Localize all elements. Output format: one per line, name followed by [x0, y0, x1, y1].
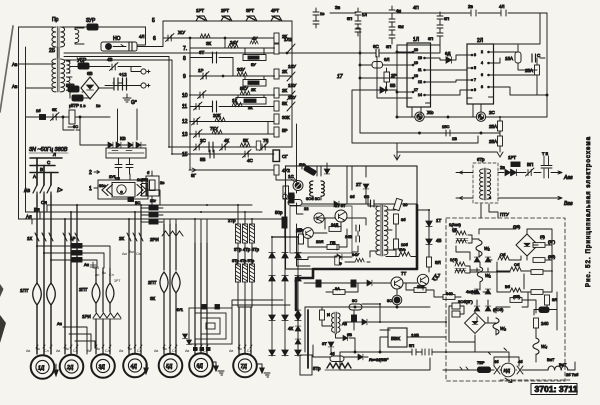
svg-text:3Д: 3Д: [99, 365, 106, 371]
labels 3D bundle: [93, 250, 142, 283]
svg-text:20Я: 20Я: [316, 239, 323, 244]
wire motor row: [443, 362, 575, 370]
svg-text:8Я: 8Я: [552, 297, 557, 302]
svg-text:2РТ: 2РТ: [221, 8, 229, 13]
dashed rule above plate: [500, 379, 572, 381]
resistor below 1S: [289, 193, 294, 203]
wire heater taps: [37, 241, 72, 260]
capacitor C right: [532, 53, 541, 62]
svg-text:19: 19: [414, 61, 418, 65]
diode pair up second tier a: [466, 289, 491, 294]
svg-text:б: б: [147, 170, 150, 175]
svg-text:240: 240: [541, 321, 549, 326]
resistor USR dark: [77, 58, 89, 69]
inductor Vb lower a: [510, 262, 521, 271]
svg-text:9Ус: 9Ус: [399, 247, 406, 252]
bypass loop over ID: [488, 348, 519, 366]
svg-text:4У: 4У: [252, 36, 258, 41]
svg-text:ВП: ВП: [527, 162, 533, 167]
resistor 25A chain lower a: [489, 121, 503, 131]
motor 5D feeds: [164, 224, 176, 270]
wire bvk nets: [380, 337, 446, 352]
svg-text:Ав: Ав: [24, 188, 30, 194]
svg-text:3УР: 3УР: [86, 18, 96, 24]
motor 6D feeds: [195, 243, 207, 354]
svg-text:5Р: 5Р: [282, 128, 288, 133]
svg-text:+12: +12: [119, 72, 127, 77]
svg-text:25А: 25А: [525, 68, 533, 73]
bridge 4K lower-left column: [288, 308, 301, 348]
ladder box row10: [236, 95, 266, 110]
svg-text:5П: 5П: [347, 16, 352, 21]
wire 1D fuse tails: [37, 305, 51, 354]
svg-text:2Л: 2Л: [477, 38, 483, 44]
svg-text:6: 6: [153, 36, 156, 42]
svg-text:6Т: 6Т: [199, 50, 205, 55]
svg-text:Ав: Ав: [12, 62, 18, 67]
svg-text:30У: 30У: [237, 67, 245, 72]
svg-text:Ан: Ан: [84, 262, 89, 267]
svg-text:6Л: 6Л: [384, 57, 390, 62]
svg-text:ЖУ: ЖУ: [178, 30, 185, 35]
svg-text:1С: 1С: [288, 174, 295, 179]
svg-text:4: 4: [481, 61, 483, 65]
wire amp internals: [297, 203, 348, 266]
block KV box: [106, 148, 146, 158]
breaker Av contacts: [24, 185, 63, 195]
svg-text:5Тр: 5Тр: [313, 366, 321, 371]
svg-text:2С: 2С: [200, 138, 207, 143]
svg-text:Ам: Ам: [122, 252, 127, 256]
cap 1S dark a: [316, 280, 321, 287]
svg-text:Ал: Ал: [26, 214, 32, 219]
diode 1T chain: [426, 218, 442, 227]
svg-text:3К: 3К: [206, 41, 212, 46]
svg-text:7Т: 7Т: [401, 271, 407, 276]
wire 7D link: [239, 306, 252, 308]
capacitor bank plus12: [114, 72, 127, 90]
staircase 2D-3D: [63, 327, 95, 354]
svg-text:6Тр: 6Тр: [477, 157, 485, 162]
wire 2L right nets: [494, 45, 548, 95]
svg-text:Об: Об: [500, 252, 506, 257]
resistor 1R heaters: [70, 236, 82, 262]
svg-text:1б: 1б: [36, 108, 41, 113]
svg-text:НО: НО: [113, 36, 121, 42]
resistor 20Ya v: [335, 256, 340, 265]
transformer Tr2: [49, 48, 65, 92]
svg-text:В: В: [40, 167, 43, 172]
resistor on box edge: [283, 186, 289, 199]
wire chain top: [417, 209, 429, 211]
wire caps link: [347, 218, 366, 252]
transformer Tr2 secondary a: [67, 61, 71, 73]
misc tick marks motor bundles: [36, 345, 252, 348]
svg-text:4В: 4В: [107, 57, 113, 62]
wire 6Tr right nets: [498, 171, 562, 174]
svg-text:ВС: ВС: [135, 200, 141, 205]
svg-text:4К: 4К: [224, 138, 230, 143]
transistor 4T: [417, 274, 438, 285]
junction dots 1L feeds: [359, 64, 361, 66]
svg-text:W₄: W₄: [541, 344, 547, 349]
svg-text:(4): (4): [540, 234, 546, 239]
svg-text:Сл: Сл: [172, 349, 177, 353]
resistor 3b: [394, 214, 407, 224]
resistor 28Ya: [296, 228, 304, 244]
resistor tier3: [531, 290, 543, 295]
svg-text:10: 10: [182, 93, 188, 99]
svg-text:А: А: [33, 174, 36, 179]
svg-text:5Д: 5Д: [166, 364, 173, 370]
svg-text:3Об 8С: 3Об 8С: [306, 196, 320, 201]
motor 4D feeds: [129, 205, 141, 354]
svg-text:W₂: W₂: [500, 326, 506, 331]
resistor 5b rounded: [288, 194, 309, 211]
diode stack right col1 row2: [269, 276, 301, 282]
wavy W1b: [477, 267, 491, 282]
wire thick top thin: [416, 166, 418, 205]
svg-text:1В: 1В: [452, 136, 457, 141]
svg-text:4РТ: 4РТ: [271, 8, 279, 13]
junction dots sprinkle: [43, 47, 553, 353]
contact row 1K: [27, 233, 53, 241]
svg-text:2в: 2в: [500, 165, 506, 170]
lamp 2S: [476, 110, 495, 121]
small boxes 1G: [452, 303, 460, 317]
wire 285 spine: [284, 199, 286, 237]
svg-text:28Я: 28Я: [296, 228, 303, 233]
diodes near loops: [182, 334, 191, 344]
resistor 240: [534, 318, 550, 328]
svg-text:17: 17: [337, 74, 343, 80]
ladder box row9: [243, 76, 266, 92]
block 2v small left: [146, 170, 164, 205]
contact on top rail a: [468, 4, 476, 16]
svg-text:Ан: Ан: [95, 273, 99, 277]
wire y147: [394, 136, 497, 160]
capstack group x392: [389, 6, 404, 44]
svg-text:1ВУ: 1ВУ: [288, 83, 296, 88]
svg-text:2К: 2К: [251, 87, 256, 92]
wire mid-bottom nets: [344, 304, 446, 330]
resistor 57R dark: [71, 95, 83, 108]
contact on top rail b: [499, 4, 506, 16]
wire 3Tr bottoms: [238, 282, 252, 307]
svg-text:6М: 6М: [398, 24, 404, 29]
wire ladder rail right: [291, 21, 293, 147]
T-bar split: [272, 236, 298, 238]
svg-text:12: 12: [182, 119, 188, 125]
svg-text:Сл: Сл: [44, 349, 49, 353]
motor 5D: [159, 354, 183, 378]
arrows 1RI: [82, 313, 121, 319]
svg-text:5П: 5П: [409, 343, 414, 348]
diode row y204: [334, 201, 339, 207]
svg-text:Жс: Жс: [427, 110, 434, 115]
diode top in box: [324, 169, 330, 174]
svg-text:СГ: СГ: [282, 154, 288, 159]
diode 5B: [380, 83, 396, 93]
svg-text:(5б): (5б): [513, 294, 521, 299]
svg-text:2Б: 2Б: [49, 48, 56, 54]
svg-text:5К: 5К: [243, 138, 249, 143]
wire 6L net: [352, 45, 440, 143]
wire long third: [64, 59, 172, 61]
capacitor pair below KV b: [126, 158, 133, 174]
ground after 1D: [54, 364, 58, 376]
diode pair up b: [485, 257, 491, 262]
wire to 3UR: [62, 26, 146, 28]
motor 3D feeds: [96, 268, 110, 312]
diode stack right col1 row1: [269, 253, 301, 259]
svg-text:1(Ч): 1(Ч): [450, 257, 458, 262]
wire tier nets: [466, 262, 557, 330]
zigzag 5Tr heater: [313, 363, 353, 371]
svg-text:17: 17: [414, 88, 418, 92]
ground after 6D: [213, 362, 224, 375]
resistor right a: [533, 243, 545, 248]
svg-text:6Д: 6Д: [445, 51, 451, 56]
resistor 3UR: [86, 18, 98, 30]
svg-text:7.: 7.: [183, 46, 187, 52]
ladder row12: [182, 113, 290, 125]
BVK box: [388, 328, 419, 347]
svg-text:4У2: 4У2: [282, 168, 290, 173]
svg-text:G°: G°: [131, 100, 137, 106]
ground C: [123, 94, 137, 106]
wire y133: [360, 132, 500, 134]
transformer RUB: [452, 227, 468, 243]
svg-text:ВнТ: ВнТ: [559, 362, 567, 367]
block 1L: [407, 37, 431, 107]
wire 5D bus taps: [164, 219, 176, 224]
bus Al y219: [32, 218, 285, 220]
bus 3N supply label: [29, 147, 68, 153]
svg-text:7Д: 7Д: [241, 364, 248, 370]
svg-text:14В: 14В: [345, 234, 352, 239]
coil VnT a: [547, 357, 561, 370]
svg-text:Вм: Вм: [129, 250, 134, 254]
svg-text:ПТУ: ПТУ: [500, 212, 509, 217]
motor stub labels: [26, 347, 252, 353]
resistor mid right: [510, 294, 522, 302]
transistor 1T: [335, 203, 347, 222]
motor1 pt fuses 1PT: [20, 283, 55, 305]
transistor 7T: [391, 271, 407, 289]
svg-text:У5Р: У5Р: [77, 58, 87, 64]
resistor tier2: [531, 270, 543, 275]
motor 2D feeds: [65, 205, 77, 354]
bus phase B: [30, 165, 55, 167]
svg-text:1К: 1К: [232, 98, 238, 103]
hmm heater right wires: [82, 246, 110, 268]
type plate 3701:3711: [531, 384, 578, 395]
cap 1S dark b: [351, 280, 356, 287]
cap 1S square: [352, 315, 357, 322]
wire 3D below arrows: [96, 319, 110, 354]
ladder box row7: [243, 48, 266, 67]
svg-text:5УР: 5УР: [66, 83, 74, 88]
bridge VT top: [513, 224, 546, 256]
wire right diode col verticals: [272, 237, 298, 356]
svg-text:С: С: [537, 53, 541, 58]
svg-text:2в: 2в: [160, 180, 164, 185]
motor 4D: [123, 354, 147, 378]
wire 6Tr left net: [456, 171, 473, 200]
svg-text:7Б: 7Б: [263, 138, 269, 143]
svg-text:2: 2: [481, 50, 483, 54]
svg-text:4У1: 4У1: [176, 307, 184, 312]
svg-text:20К: 20К: [213, 113, 221, 118]
wire coil stubs: [313, 196, 321, 200]
svg-text:57Р: 57Р: [71, 103, 79, 108]
svg-text:4м(м): 4м(м): [466, 289, 477, 294]
svg-text:Ввв: Ввв: [564, 201, 573, 207]
resistor 15A: [505, 52, 521, 63]
svg-text:25А: 25А: [489, 139, 497, 144]
svg-text:1Т: 1Т: [436, 218, 442, 223]
svg-text:7КУ: 7КУ: [210, 126, 218, 131]
svg-text:Вк: Вк: [102, 271, 106, 275]
block 1B limit switch: [98, 176, 149, 205]
bridge rectifier M: [81, 71, 99, 99]
resistor 10b: [394, 239, 409, 249]
transformer Tr1: [52, 17, 65, 48]
wavy W1: [476, 240, 490, 257]
resistor 34D: [443, 291, 455, 299]
bus drop links: [19, 205, 48, 224]
wire NO right: [137, 46, 163, 48]
svg-text:6В: 6В: [87, 71, 93, 76]
svg-text:4Б: 4Б: [436, 238, 442, 243]
svg-text:3Т: 3Т: [322, 341, 327, 346]
coil 9us bottom: [399, 247, 410, 256]
wire box bottom band: [386, 224, 417, 257]
ladder row14 long: [169, 138, 292, 152]
svg-text:94У: 94У: [352, 252, 359, 257]
svg-text:2в: 2в: [468, 4, 474, 9]
transformer 3Tr-5Tr coils: [232, 258, 255, 282]
contact 6K: [51, 107, 60, 121]
bus phase C: [30, 172, 58, 174]
svg-text:7БР: 7БР: [477, 360, 485, 365]
wire row16 drop: [276, 176, 297, 180]
transformer Tr1 secondary: [75, 28, 84, 44]
scan artifact left edge mark 2: [0, 284, 4, 297]
svg-text:7: 7: [474, 78, 476, 82]
svg-text:1Л2: 1Л2: [284, 37, 292, 42]
resistor column 1b: [320, 310, 331, 320]
svg-text:3: 3: [474, 53, 476, 57]
resistor 1i slanted: [393, 198, 408, 210]
diode pair up a: [474, 257, 480, 262]
svg-text:8Я: 8Я: [435, 260, 441, 265]
diode 2d second: [511, 169, 517, 175]
svg-text:4П: 4П: [413, 5, 419, 10]
wire long double horizontal lower: [64, 56, 169, 58]
svg-text:11: 11: [418, 68, 422, 72]
wire 2Tr feeds: [238, 205, 252, 224]
photodetector 1S circle: [288, 174, 303, 191]
svg-text:1в: 1в: [320, 11, 324, 16]
diode 6D between blocks: [445, 51, 452, 63]
wire bus to 2R: [141, 208, 163, 222]
contact row 2D: [63, 233, 79, 241]
amplifier box: [286, 166, 418, 269]
terminal circle 1a: [283, 193, 288, 199]
thermal contact 2RT: [221, 8, 232, 21]
wire drop x169: [168, 57, 170, 148]
wire lamp rail y117: [397, 116, 547, 118]
diode 3T: [322, 341, 334, 347]
ladder row15: [172, 150, 288, 164]
ground after 7D: [257, 364, 270, 377]
svg-text:3РТ: 3РТ: [114, 279, 121, 283]
bus Sl y205: [47, 204, 252, 206]
ticks left motor row: [460, 367, 469, 370]
svg-text:5КУ: 5КУ: [240, 86, 248, 91]
svg-text:(2б): (2б): [513, 224, 521, 229]
ladder link d: [267, 122, 269, 135]
wire lamp chain drops: [497, 117, 503, 157]
wire chain x429: [428, 210, 430, 272]
svg-text:2б 7нб: 2б 7нб: [566, 372, 579, 377]
ladder row10: [182, 83, 296, 100]
wire bridge connections: [70, 88, 113, 98]
svg-text:9А: 9А: [335, 286, 340, 291]
svg-text:ПБ: ПБ: [330, 240, 336, 245]
wire cap feed: [113, 82, 122, 84]
svg-text:24Д: 24Д: [331, 222, 338, 227]
contact 5P: [409, 343, 416, 355]
arrows 2RI: [150, 231, 183, 242]
svg-text:1Р: 1Р: [198, 68, 204, 73]
svg-text:3П: 3П: [386, 44, 391, 49]
svg-text:1 в: 1 в: [80, 103, 85, 108]
svg-text:9С: 9С: [352, 298, 357, 303]
wire ladder rail main: [189, 38, 191, 170]
svg-text:2Т: 2Т: [356, 182, 362, 187]
diode stack right col1 row4: [269, 350, 301, 356]
thick power path: [296, 205, 417, 310]
svg-text:2Д: 2Д: [66, 365, 74, 371]
lamp Zhs: [415, 110, 434, 121]
svg-text:И: И: [327, 312, 330, 317]
scan artifact top-left diagonal: [0, 26, 13, 112]
svg-text:2: 2: [89, 170, 92, 176]
contact x right of ID: [517, 359, 523, 374]
wire y352: [340, 352, 446, 370]
svg-text:5К: 5К: [282, 101, 288, 106]
ladder row6: [153, 30, 288, 43]
wire lower-left net: [322, 307, 355, 352]
motor 7D feeds: [239, 307, 251, 354]
svg-text:БВК: БВК: [391, 336, 400, 342]
svg-text:1в: 1в: [96, 103, 100, 108]
ladder row13: [182, 126, 288, 138]
node 1: [89, 186, 98, 192]
svg-text:Ан: Ан: [57, 321, 62, 326]
capstack group x440: [428, 12, 449, 45]
svg-text:Сл: Сл: [105, 349, 110, 353]
wire chain y117: [26, 116, 111, 118]
wire 2Tr to 3Tr: [238, 243, 252, 264]
svg-text:3РТ: 3РТ: [246, 8, 254, 13]
svg-text:4,7: 4,7: [432, 276, 439, 281]
svg-text:Сл: Сл: [109, 273, 114, 277]
svg-text:1РИ: 1РИ: [82, 314, 91, 319]
